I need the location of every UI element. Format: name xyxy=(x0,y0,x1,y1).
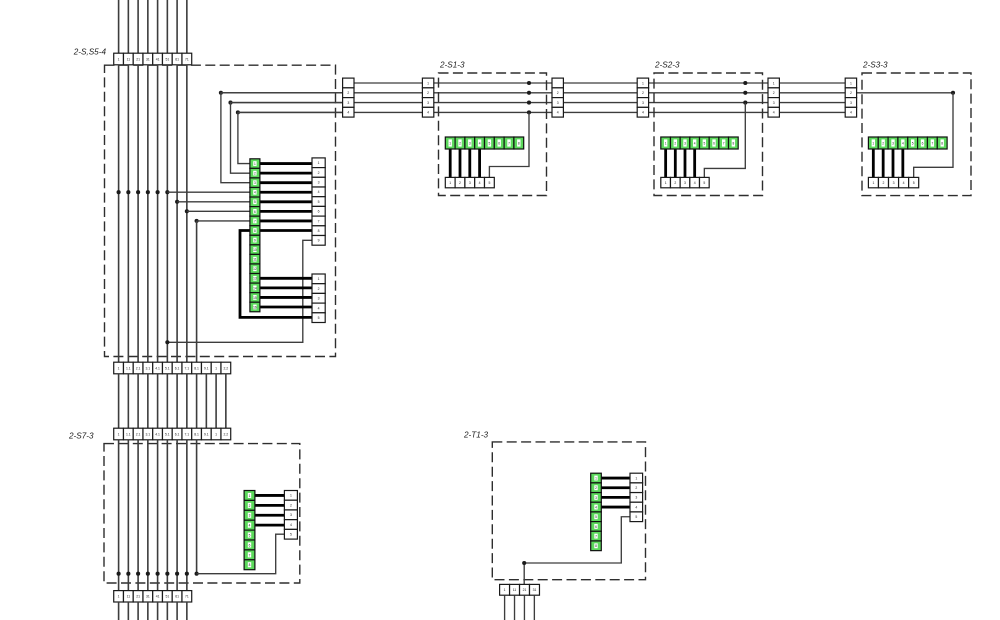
svg-text:1: 1 xyxy=(665,181,667,185)
svg-text:11: 11 xyxy=(127,57,131,61)
junction dot on wire 6 lower xyxy=(165,340,169,344)
svg-text:5.1: 5.1 xyxy=(165,432,170,436)
svg-text:1: 1 xyxy=(215,432,217,436)
2-S7-3 connector column (5 pins) xyxy=(284,491,297,540)
svg-text:8: 8 xyxy=(941,141,943,145)
svg-text:3.1: 3.1 xyxy=(145,366,150,370)
svg-text:7: 7 xyxy=(249,553,251,557)
svg-text:2-T1-3: 2-T1-3 xyxy=(463,431,489,440)
svg-text:1.1: 1.1 xyxy=(126,432,131,436)
svg-text:1.1: 1.1 xyxy=(126,366,131,370)
svg-text:1: 1 xyxy=(635,476,637,480)
svg-text:6: 6 xyxy=(318,210,320,214)
bus connector stack 5 xyxy=(768,78,779,117)
net tap A: dot on riser x=220.9 xyxy=(219,91,223,95)
wire from terminal 9 of column X4 to wire 6 junction xyxy=(167,240,312,342)
vertical wires 1-8 inside enclosure xyxy=(119,65,187,362)
svg-text:6: 6 xyxy=(249,543,251,547)
wires 1-8 from strip X5 to bottom strip X6 xyxy=(119,440,187,591)
svg-text:3: 3 xyxy=(595,496,597,500)
enclosure 2-S3-3 junction dot xyxy=(951,91,955,95)
svg-text:2: 2 xyxy=(347,91,349,95)
svg-text:5: 5 xyxy=(249,533,251,537)
svg-text:2: 2 xyxy=(635,486,637,490)
connector column X4 lower (5 pins) xyxy=(312,274,325,323)
svg-text:8: 8 xyxy=(249,563,251,567)
svg-text:41: 41 xyxy=(156,57,160,61)
svg-text:3: 3 xyxy=(318,297,320,301)
svg-text:51: 51 xyxy=(165,57,169,61)
net tap B wire to bus and down to terminal 2 xyxy=(231,103,343,174)
svg-text:1: 1 xyxy=(872,181,874,185)
svg-text:7.1: 7.1 xyxy=(184,432,189,436)
svg-text:2: 2 xyxy=(318,171,320,175)
svg-text:4: 4 xyxy=(642,111,644,115)
svg-text:4.1: 4.1 xyxy=(155,432,160,436)
bus connector stack 6 xyxy=(845,78,856,117)
svg-text:6: 6 xyxy=(922,141,924,145)
2-S3-3 connector row (5 pins) xyxy=(868,177,918,187)
svg-text:2: 2 xyxy=(674,141,676,145)
tap wire from wire 6 to terminal 4 of strip X2 xyxy=(167,191,250,193)
enclosure 2-S1-3 dashed outline xyxy=(439,73,547,196)
svg-text:7: 7 xyxy=(595,535,597,539)
junction dots on wires 1-6 xyxy=(117,190,170,194)
2-S2-3 terminal strip (8 green terminals) xyxy=(661,137,738,149)
2-S7-3 terminal strip (8 green terminals) xyxy=(244,491,255,570)
svg-text:4: 4 xyxy=(595,505,597,509)
enclosure 2-S3-3 dashed outline xyxy=(862,73,971,196)
svg-text:3: 3 xyxy=(892,141,894,145)
enclosure 2-S1-3 junction dots xyxy=(527,81,531,115)
svg-text:1: 1 xyxy=(118,432,120,436)
svg-text:5: 5 xyxy=(489,141,491,145)
bus wire 3 xyxy=(231,102,857,104)
svg-text:3: 3 xyxy=(684,181,686,185)
svg-text:5: 5 xyxy=(254,200,256,204)
enclosure 2-S2-3 dashed outline xyxy=(654,73,763,196)
bus connector stack 2 xyxy=(422,78,433,117)
svg-text:6: 6 xyxy=(254,210,256,214)
tap wire from wire 9 to terminal 7 xyxy=(197,220,250,222)
svg-text:2: 2 xyxy=(883,181,885,185)
svg-text:21: 21 xyxy=(136,595,140,599)
2-S3-3 terminal strip (8 green terminals) xyxy=(868,137,947,149)
connector column X4 upper (9 pins) xyxy=(312,158,325,245)
net tap B: dot on riser x=230.5 xyxy=(228,101,232,105)
svg-text:3: 3 xyxy=(557,101,559,105)
svg-text:31: 31 xyxy=(146,595,150,599)
2-S1-3 connector row (5 pins) xyxy=(445,177,494,187)
enclosure 2-S,S5-4 dashed outline xyxy=(105,65,336,356)
svg-text:41: 41 xyxy=(156,595,160,599)
svg-text:3: 3 xyxy=(318,180,320,184)
svg-text:2: 2 xyxy=(459,181,461,185)
svg-text:8.1: 8.1 xyxy=(194,432,199,436)
bus wire 4 xyxy=(238,111,857,113)
svg-text:4: 4 xyxy=(427,111,429,115)
bus connector stack 1 xyxy=(343,78,354,117)
2-S1-3 thick wires terminals 1-4 to pins 1-4 xyxy=(450,149,479,177)
wires from top edge into terminal strip X1 xyxy=(119,0,187,53)
2-S3-3 tap wire from bus to pin 5 xyxy=(914,93,953,178)
svg-text:2.2: 2.2 xyxy=(223,366,228,370)
svg-text:4: 4 xyxy=(318,306,320,310)
svg-text:3: 3 xyxy=(642,101,644,105)
svg-text:5: 5 xyxy=(912,141,914,145)
terminal strip X5 (12 terminals) xyxy=(114,428,231,440)
svg-text:4: 4 xyxy=(254,191,256,195)
svg-text:4: 4 xyxy=(773,111,775,115)
svg-text:4: 4 xyxy=(290,523,292,527)
svg-text:1: 1 xyxy=(850,81,852,85)
enclosure 2-T1-3 dashed outline xyxy=(492,442,645,580)
svg-text:5: 5 xyxy=(703,181,705,185)
svg-text:5: 5 xyxy=(290,533,292,537)
net tap A wire to bus and down to terminal 3 xyxy=(221,93,343,183)
svg-text:1: 1 xyxy=(504,588,506,592)
wires below strip X7 to page edge xyxy=(505,595,535,620)
svg-text:4: 4 xyxy=(318,190,320,194)
tap wire from wire 7 to terminal 5 xyxy=(177,201,250,203)
svg-text:4: 4 xyxy=(902,141,904,145)
terminal strip X2 (16 green terminals) xyxy=(250,159,260,312)
svg-text:1: 1 xyxy=(449,181,451,185)
svg-text:1: 1 xyxy=(595,476,597,480)
svg-text:1: 1 xyxy=(118,595,120,599)
svg-text:3: 3 xyxy=(347,101,349,105)
svg-text:2: 2 xyxy=(459,141,461,145)
svg-text:9.1: 9.1 xyxy=(204,366,209,370)
svg-text:15: 15 xyxy=(253,296,257,300)
svg-text:61: 61 xyxy=(175,595,179,599)
svg-text:4: 4 xyxy=(903,181,905,185)
svg-text:3: 3 xyxy=(850,101,852,105)
svg-text:7: 7 xyxy=(508,141,510,145)
svg-text:2.1: 2.1 xyxy=(136,432,141,436)
svg-text:9: 9 xyxy=(254,238,256,242)
svg-text:1: 1 xyxy=(118,57,120,61)
svg-text:3: 3 xyxy=(684,141,686,145)
svg-text:2-S,S5-4: 2-S,S5-4 xyxy=(73,48,107,57)
svg-text:3: 3 xyxy=(893,181,895,185)
svg-text:4: 4 xyxy=(479,181,481,185)
svg-text:6.1: 6.1 xyxy=(175,432,180,436)
junction dot wire 7 xyxy=(175,200,179,204)
junction dot wire 8 xyxy=(185,209,189,213)
svg-text:9.1: 9.1 xyxy=(204,432,209,436)
svg-text:6: 6 xyxy=(498,141,500,145)
svg-text:3: 3 xyxy=(254,181,256,185)
2-T1-3 terminal strip (8 green terminals) xyxy=(591,473,602,550)
svg-text:2: 2 xyxy=(850,91,852,95)
junction dot wire 9 xyxy=(195,219,199,223)
svg-text:3: 3 xyxy=(249,514,251,518)
svg-text:8.1: 8.1 xyxy=(194,366,199,370)
svg-text:1: 1 xyxy=(773,81,775,85)
svg-text:13: 13 xyxy=(253,277,257,281)
wires between strip X3 and strip X5 xyxy=(119,374,226,428)
svg-text:5: 5 xyxy=(913,181,915,185)
svg-text:3: 3 xyxy=(773,101,775,105)
svg-text:5: 5 xyxy=(703,141,705,145)
svg-text:2: 2 xyxy=(318,287,320,291)
svg-text:3: 3 xyxy=(427,101,429,105)
bus wire 2 xyxy=(221,92,953,94)
2-S7-3 tap wire from wire 9 to pin 5 xyxy=(197,534,285,574)
svg-text:1: 1 xyxy=(249,494,251,498)
svg-text:2: 2 xyxy=(674,181,676,185)
svg-text:1: 1 xyxy=(449,141,451,145)
svg-text:6: 6 xyxy=(713,141,715,145)
svg-text:2: 2 xyxy=(290,503,292,507)
svg-text:1: 1 xyxy=(254,162,256,166)
2-S1-3 tap wire from bus to pin 5 xyxy=(489,112,529,177)
svg-text:4.1: 4.1 xyxy=(155,366,160,370)
junction dots row inside 2-S7-3 xyxy=(117,572,199,576)
svg-text:7: 7 xyxy=(931,141,933,145)
svg-text:4: 4 xyxy=(557,111,559,115)
svg-text:51: 51 xyxy=(165,595,169,599)
terminal strip X3 (12 terminals) xyxy=(114,362,231,374)
svg-text:8: 8 xyxy=(318,229,320,233)
svg-text:2.1: 2.1 xyxy=(136,366,141,370)
svg-text:4: 4 xyxy=(635,505,637,509)
svg-text:5: 5 xyxy=(488,181,490,185)
svg-text:3: 3 xyxy=(290,513,292,517)
svg-text:4: 4 xyxy=(479,141,481,145)
svg-text:16: 16 xyxy=(253,305,257,309)
svg-text:2.2: 2.2 xyxy=(223,432,228,436)
enclosure 2-S7-3 dashed outline xyxy=(104,444,300,583)
svg-text:2: 2 xyxy=(249,504,251,508)
2-S2-3 connector row (5 pins) xyxy=(661,177,709,187)
terminal strip X1 (8 terminals) xyxy=(114,53,192,65)
svg-text:4: 4 xyxy=(347,111,349,115)
svg-text:2: 2 xyxy=(642,91,644,95)
svg-text:12: 12 xyxy=(253,267,257,271)
svg-text:7: 7 xyxy=(254,219,256,223)
svg-text:1: 1 xyxy=(118,366,120,370)
svg-text:1: 1 xyxy=(318,277,320,281)
svg-text:21: 21 xyxy=(136,57,140,61)
svg-text:31: 31 xyxy=(533,588,537,592)
svg-text:2: 2 xyxy=(882,141,884,145)
2-T1-3 thick wires terminals 1-4 to pins 1-4 xyxy=(601,478,630,507)
svg-text:3.1: 3.1 xyxy=(145,432,150,436)
wire 9 from strip X5 to junction xyxy=(196,440,198,574)
thick wires terminals 13-16 to lower column pins 1-4 xyxy=(260,278,312,307)
svg-text:2: 2 xyxy=(254,172,256,176)
svg-text:8: 8 xyxy=(518,141,520,145)
svg-text:8: 8 xyxy=(732,141,734,145)
vertical wire 9 down to strip X3 xyxy=(196,221,198,362)
terminal strip X6 (8 terminals) xyxy=(114,591,192,602)
svg-text:71: 71 xyxy=(185,595,189,599)
svg-text:21: 21 xyxy=(523,588,527,592)
bus connector stack 4 xyxy=(637,78,648,117)
svg-text:1: 1 xyxy=(290,494,292,498)
svg-text:3: 3 xyxy=(469,181,471,185)
svg-text:8: 8 xyxy=(595,544,597,548)
2-T1-3 junction dot xyxy=(522,561,526,565)
svg-text:11: 11 xyxy=(513,588,517,592)
svg-text:8: 8 xyxy=(254,229,256,233)
svg-text:1: 1 xyxy=(872,141,874,145)
svg-text:3: 3 xyxy=(635,496,637,500)
svg-text:2: 2 xyxy=(427,91,429,95)
svg-text:1: 1 xyxy=(215,366,217,370)
svg-text:2-S7-3: 2-S7-3 xyxy=(68,432,94,441)
svg-text:7.1: 7.1 xyxy=(184,366,189,370)
svg-text:4: 4 xyxy=(694,141,696,145)
svg-text:5: 5 xyxy=(318,316,320,320)
svg-text:4: 4 xyxy=(249,524,251,528)
svg-text:5.1: 5.1 xyxy=(165,366,170,370)
svg-text:1: 1 xyxy=(642,81,644,85)
thick wires terminals 1-8 to column X4 pins 1-8 xyxy=(260,164,312,231)
svg-text:14: 14 xyxy=(253,286,257,290)
svg-text:61: 61 xyxy=(175,57,179,61)
svg-text:7: 7 xyxy=(318,219,320,223)
svg-text:4: 4 xyxy=(694,181,696,185)
svg-text:9: 9 xyxy=(318,239,320,243)
svg-text:1: 1 xyxy=(665,141,667,145)
svg-text:1: 1 xyxy=(318,161,320,165)
svg-text:1: 1 xyxy=(427,81,429,85)
2-S7-3 thick wires terminals 1-4 to pins 1-4 xyxy=(255,495,285,525)
svg-text:5: 5 xyxy=(635,515,637,519)
tap wire from wire 8 to terminal 6 xyxy=(187,210,250,212)
svg-text:2-S3-3: 2-S3-3 xyxy=(862,61,888,70)
net tap C wire to bus and down to terminal 1 xyxy=(238,112,343,163)
thick jumper from terminal 8 around to lower terminal 5 xyxy=(240,231,312,318)
svg-text:7: 7 xyxy=(723,141,725,145)
bus wire 1 xyxy=(343,82,857,84)
svg-text:11: 11 xyxy=(253,258,257,262)
2-S2-3 thick wires terminals 1-4 to pins 1-4 xyxy=(666,149,695,177)
2-S2-3 tap wire from bus to pin 5 xyxy=(704,103,745,178)
svg-text:31: 31 xyxy=(146,57,150,61)
wires below strip X6 to page edge xyxy=(119,602,187,620)
svg-text:3: 3 xyxy=(469,141,471,145)
svg-text:6.1: 6.1 xyxy=(175,366,180,370)
bus connector stack 3 xyxy=(552,78,563,117)
svg-text:4: 4 xyxy=(850,111,852,115)
terminal strip X7 (4 terminals) xyxy=(500,584,540,595)
svg-text:71: 71 xyxy=(185,57,189,61)
svg-text:2: 2 xyxy=(773,91,775,95)
enclosure 2-S2-3 junction dots xyxy=(743,81,747,105)
2-T1-3 connector column (5 pins) xyxy=(630,473,643,521)
2-T1-3 tap wire pin 5 to bottom strip xyxy=(524,517,630,585)
svg-text:2-S2-3: 2-S2-3 xyxy=(654,61,680,70)
svg-text:2-S1-3: 2-S1-3 xyxy=(439,61,465,70)
svg-text:2: 2 xyxy=(557,91,559,95)
2-S3-3 thick wires terminals 1-4 to pins 1-4 xyxy=(873,149,903,177)
2-S1-3 terminal strip (8 green terminals) xyxy=(445,137,523,149)
net tap C: dot on riser x=237.9 xyxy=(236,110,240,114)
svg-text:5: 5 xyxy=(595,515,597,519)
svg-text:2: 2 xyxy=(595,486,597,490)
svg-text:6: 6 xyxy=(595,525,597,529)
svg-text:11: 11 xyxy=(127,595,131,599)
svg-text:5: 5 xyxy=(318,200,320,204)
svg-text:10: 10 xyxy=(253,248,257,252)
